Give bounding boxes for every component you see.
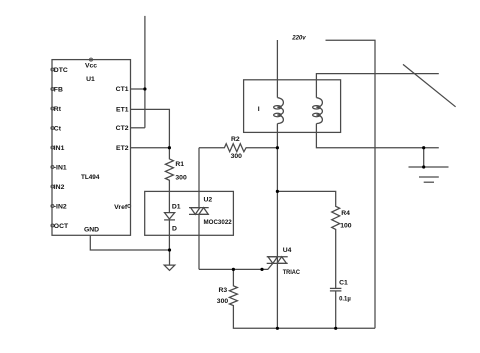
svg-text:MOC3022: MOC3022: [204, 219, 232, 226]
svg-text:D: D: [172, 226, 177, 233]
svg-text:I: I: [258, 106, 260, 113]
svg-text:300: 300: [217, 298, 229, 305]
svg-text:CT1: CT1: [116, 86, 129, 93]
svg-text:TRIAC: TRIAC: [283, 269, 300, 276]
svg-text:R2: R2: [231, 136, 240, 143]
svg-text:Vcc: Vcc: [85, 63, 97, 70]
svg-text:Rt: Rt: [54, 106, 62, 113]
svg-text:0.1µ: 0.1µ: [339, 295, 351, 302]
svg-text:FB: FB: [54, 86, 63, 93]
svg-text:100: 100: [340, 222, 352, 229]
svg-text:U4: U4: [283, 247, 292, 254]
svg-text:220v: 220v: [291, 35, 306, 42]
svg-text:ET2: ET2: [116, 145, 129, 152]
svg-text:DTC: DTC: [54, 67, 68, 74]
svg-text:R3: R3: [219, 287, 228, 294]
svg-text:C1: C1: [339, 279, 348, 286]
svg-text:300: 300: [231, 153, 243, 160]
svg-text:Ct: Ct: [54, 125, 62, 132]
svg-text:GND: GND: [84, 227, 99, 234]
svg-text:IN2: IN2: [54, 184, 65, 191]
svg-text:D1: D1: [172, 203, 181, 210]
svg-text:OCT: OCT: [54, 223, 69, 230]
svg-text:300: 300: [175, 174, 187, 181]
svg-text:ET1: ET1: [116, 106, 129, 113]
svg-text:Vref: Vref: [114, 204, 128, 211]
svg-text:R4: R4: [341, 210, 350, 217]
svg-text:TL494: TL494: [81, 174, 100, 181]
svg-text:R1: R1: [175, 161, 184, 168]
svg-text:-IN2: -IN2: [54, 203, 67, 210]
svg-text:CT2: CT2: [116, 125, 129, 132]
svg-text:U1: U1: [86, 76, 95, 83]
svg-text:-IN1: -IN1: [54, 164, 67, 171]
svg-text:U2: U2: [204, 196, 213, 203]
svg-text:IN1: IN1: [54, 145, 65, 152]
